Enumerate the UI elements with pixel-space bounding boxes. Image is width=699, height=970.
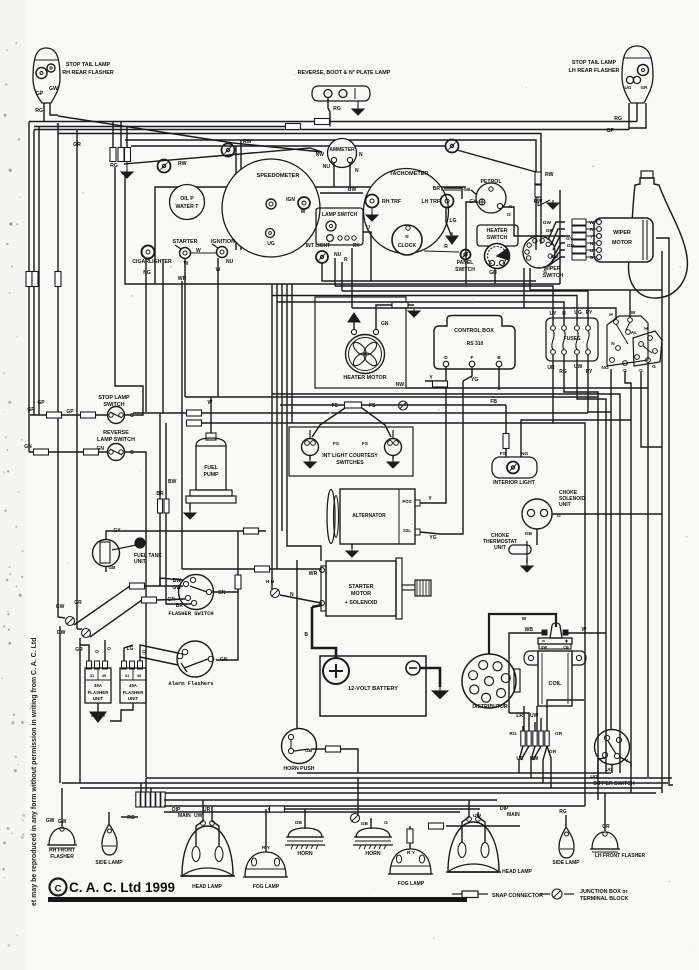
wire Y from control box [425,367,446,381]
svg-text:R Y: R Y [407,850,416,856]
ground heater [353,322,355,329]
wire LH lamp stems [636,103,638,122]
svg-text:G: G [130,450,134,456]
switch alarm flashers [177,641,213,677]
wire RW diagonal to bobbin [457,150,536,172]
wire coil bottom LR UW [523,706,525,732]
svg-text:TACHOMETER: TACHOMETER [389,171,428,177]
svg-text:GP: GP [36,91,44,97]
svg-text:UW: UW [473,813,481,819]
wire alarm flasher left [140,657,178,665]
battery [320,656,426,716]
coil terminals [542,630,547,635]
wires head RH feeds [196,800,203,847]
wire fuse drop 1 [553,355,585,806]
svg-text:SIDE LAMP: SIDE LAMP [552,860,580,866]
svg-text:STOP TAIL LAMP: STOP TAIL LAMP [572,60,617,66]
svg-text:SIDE LAMP: SIDE LAMP [95,860,123,866]
wire ammeter NU drop [333,163,335,187]
svg-text:C. A. C. Ltd 1999: C. A. C. Ltd 1999 [69,880,175,895]
svg-text:GN: GN [489,270,497,276]
fuel pump [196,446,226,490]
wire flasher GN to alarm [212,592,238,660]
wire distributor to coil (HT lead) [489,614,556,654]
wires flasher unit tops [80,645,89,661]
cigar lighter [142,246,155,259]
svg-text:LH FRONT FLASHER: LH FRONT FLASHER [595,853,646,859]
lamp side LH [559,827,574,858]
ground plate lamp [357,101,359,106]
svg-text:UG: UG [267,241,275,247]
wires FS V-drops [312,408,345,437]
wire WR to starter [182,568,321,570]
svg-text:UR: UR [547,365,555,371]
wire fuse drop 4 [588,355,611,412]
gauge speedometer [222,159,320,257]
switch courtesy 1 [302,439,319,456]
svg-text:RY: RY [586,369,593,375]
wire GY branch down x238 [237,531,239,592]
svg-text:AL: AL [631,330,637,336]
wire petrol GY left [466,202,478,284]
svg-text:U: U [590,248,594,254]
wire fog LH feed [407,829,413,843]
svg-text:GR: GR [73,142,81,148]
svg-text:BW: BW [348,187,357,193]
svg-text:UW: UW [574,364,583,370]
svg-text:N: N [590,241,594,247]
svg-text:AMMETER: AMMETER [329,147,355,153]
wire fuse drop 2 [564,355,598,800]
svg-text:GN: GN [381,321,389,327]
wire coil WB [509,633,542,713]
svg-text:HEATER: HEATER [487,228,508,234]
svg-text:RW: RW [545,172,554,178]
wire ignition W drops [184,259,186,397]
snap connector heater [392,302,408,308]
svg-text:49: 49 [102,673,107,678]
svg-text:F: F [471,355,474,361]
svg-text:FLASHER: FLASHER [50,854,74,860]
wire long run y394 [272,394,620,773]
svg-text:YG: YG [471,377,478,383]
svg-text:W: W [631,310,636,316]
wire petrol GB [441,189,461,191]
svg-text:CLOCK: CLOCK [398,243,417,249]
svg-text:D: D [444,355,448,361]
wire stop lamp feed line [30,414,108,416]
wire battery negative to ground [420,668,440,687]
courtesy switch box [289,427,413,476]
ground below RG connectors [126,162,128,169]
svg-text:UNIT: UNIT [559,502,571,508]
svg-text:POS: POS [402,499,411,504]
wire horn push to junction [311,748,325,750]
svg-text:HORN PUSH: HORN PUSH [283,766,314,772]
wire NG interior light [521,420,631,457]
wire lamp switch U [363,232,371,281]
svg-text:GP: GP [66,409,74,415]
svg-text:W: W [589,220,594,226]
junction N [271,589,280,598]
wire side lamp RH feed [108,812,110,824]
svg-text:GN: GN [220,657,228,663]
svg-text:JUNCTION BOX or: JUNCTION BOX or [580,889,629,895]
svg-text:GY: GY [566,236,574,242]
wire FS drop to interior light [505,405,507,457]
svg-text:Alarm Flashers: Alarm Flashers [168,681,213,687]
flasher unit 2 [120,668,146,703]
wire horn2 drop [370,818,372,829]
svg-text:BR: BR [156,491,164,497]
svg-text:RG: RG [333,106,341,112]
svg-text:GB: GB [361,821,369,827]
svg-text:NW: NW [316,152,325,158]
svg-text:H: H [644,326,648,332]
svg-text:GR: GR [641,85,649,90]
wires dipper [598,758,605,778]
flasher unit 1 [85,668,111,703]
snap connector FS mid [345,402,362,408]
svg-text:49: 49 [137,673,142,678]
svg-text:RY: RY [586,310,593,316]
wire Y to alternator [438,387,446,503]
wire horn circuit [357,778,359,814]
svg-text:DIPPER SWITCH: DIPPER SWITCH [593,781,634,787]
lamp side RH [102,824,117,855]
svg-text:W: W [301,209,306,215]
wire side LH feed [565,815,567,827]
svg-text:GB: GB [525,531,533,537]
svg-text:GB: GB [463,187,471,193]
svg-text:NU: NU [226,259,234,265]
wires relay top feeds [352,307,524,309]
svg-text:et may be reproduced in any fo: et may be reproduced in any form without… [31,638,38,907]
svg-text:BW: BW [168,479,177,485]
lamp fog LH [390,849,431,874]
svg-text:REVERSE: REVERSE [103,430,129,436]
svg-text:IGN: IGN [286,197,295,203]
wire NG cigar drop [145,259,147,412]
junction on NW [399,401,408,410]
svg-text:FB: FB [490,399,497,405]
starter shaft and gear [402,584,415,586]
svg-text:SWITCH: SWITCH [455,267,475,273]
dash outer frame [125,175,560,284]
svg-text:STOP LAMP: STOP LAMP [98,395,130,401]
dash inner frame [155,187,466,284]
svg-text:W: W [522,616,527,622]
lamp RH stop/tail [33,48,60,103]
svg-text:HEATER MOTOR: HEATER MOTOR [343,375,386,381]
svg-text:MOTOR: MOTOR [612,240,632,246]
svg-text:N: N [355,168,359,174]
snap connectors on left verticals [26,272,32,287]
svg-text:GB: GB [109,565,117,570]
wire left vertical x39 [38,127,40,416]
wiper switch [523,236,555,268]
svg-text:C: C [55,884,62,895]
ground alternator [351,544,353,548]
svg-text:STOP TAIL LAMP: STOP TAIL LAMP [66,62,111,68]
wire drops from RW lines [235,146,237,250]
heater box frame [315,297,406,388]
screw terminal RW 2 [222,144,235,157]
wire BW riser [160,578,183,586]
alternator terminals [415,500,420,506]
lamp head RH [182,826,233,876]
svg-text:TERMINAL BLOCK: TERMINAL BLOCK [580,896,629,902]
ground flasher unit [97,703,99,712]
svg-text:G: G [130,413,134,419]
horn 1 [288,828,322,837]
svg-text:NG: NG [521,451,528,457]
washer bottle [629,178,688,298]
snap connector Y [433,381,448,387]
legend snap connector [452,893,462,895]
wires center bundle from dash [271,284,273,589]
svg-text:DISTRIBUTOR: DISTRIBUTOR [472,704,508,710]
svg-text:GW: GW [56,604,65,610]
wire RG top bus [29,121,637,123]
switch flasher [179,575,214,610]
svg-text:FUEL: FUEL [204,465,218,471]
alternator [340,489,415,544]
dipper switch [595,730,630,765]
svg-text:SW: SW [541,646,548,650]
heater motor terminals [351,329,356,334]
wire top line y133 [58,134,541,245]
snap connectors BR pair [159,413,161,499]
gauge ammeter [328,139,357,168]
svg-text:GN: GN [567,243,575,249]
svg-text:FS: FS [362,441,369,447]
svg-text:B: B [304,632,308,638]
wire BR to switch [166,600,191,604]
wire plate lamp RG [328,98,330,127]
svg-text:UR: UR [203,807,211,813]
gauge clock [392,225,422,255]
svg-text:RY: RY [353,243,360,249]
svg-text:LG: LG [450,218,457,224]
wire battery cable [312,607,336,658]
wire GW below junction [58,617,65,618]
relay second shape [633,331,662,366]
svg-text:LH TRF: LH TRF [422,199,440,205]
svg-text:CB: CB [563,646,569,650]
svg-text:WATER T: WATER T [176,204,200,210]
svg-text:GR: GR [75,647,83,653]
svg-text:FOG LAMP: FOG LAMP [253,884,280,890]
wire relay drop 4 [647,362,649,388]
lamp RH TRF [366,195,379,208]
snap connectors RG drop left [112,122,114,148]
junction GW [66,617,75,626]
svg-text:G: G [590,255,594,261]
wire fuse drop 3 [577,355,606,773]
svg-text:WB: WB [525,627,534,633]
relay flasher unit right [607,316,648,366]
copyright [50,879,67,896]
connector stack wiper [572,219,586,225]
svg-text:GR: GR [546,228,554,234]
junction horn [351,814,360,823]
bottom bus lines [297,772,611,774]
svg-text:N: N [359,152,363,158]
svg-text:STARTER: STARTER [172,239,197,245]
wire coil W [567,632,606,634]
svg-text:RG: RG [559,369,567,375]
svg-text:RG: RG [127,815,135,821]
svg-text:RH TRF: RH TRF [382,199,401,205]
battery positive terminal [323,658,349,684]
wire GW long left vertical [57,123,59,617]
wire BR tach [444,188,462,199]
svg-text:FUSES: FUSES [564,336,581,342]
svg-text:REVERSE, BOOT & N° PLATE LAMP: REVERSE, BOOT & N° PLATE LAMP [298,70,391,76]
wire BW between gauges [320,192,363,194]
svg-text:O: O [95,649,99,655]
svg-text:STARTER: STARTER [348,584,373,590]
wire FS run [280,404,506,406]
svg-text:GP: GP [27,407,35,413]
svg-text:R Y: R Y [262,845,271,851]
wire GR left vertical [76,130,78,630]
switch courtesy 2 [385,439,402,456]
svg-text:MAIN: MAIN [178,813,191,819]
svg-text:49A: 49A [94,683,102,688]
starter motor [326,561,396,616]
wire diagonal top-left to dash [58,116,322,152]
svg-text:RH REAR FLASHER: RH REAR FLASHER [62,70,114,76]
wire YG run [463,367,472,381]
svg-text:MAIN: MAIN [507,812,520,818]
svg-text:SWITCH: SWITCH [487,235,508,241]
svg-text:B: B [497,355,501,361]
wire diagonal to ammeter [124,148,322,164]
fuel tank unit [93,540,120,567]
svg-text:UG: UG [574,310,582,316]
relay terminals [614,320,619,325]
svg-text:UG: UG [590,774,597,780]
svg-text:S2L: S2L [403,528,411,533]
ground RW [537,197,539,206]
snap connectors RW vertical pair [535,172,541,184]
svg-text:WIPER: WIPER [613,230,631,236]
svg-text:W: W [582,627,587,633]
wire petrol G right [502,207,570,236]
lamp LH front flasher [592,832,618,849]
screw terminal RW 1 [158,160,171,173]
wire LH flasher feed [604,793,606,831]
wiper motor [594,218,653,262]
svg-text:CIGARLIGHTER: CIGARLIGHTER [132,259,172,265]
wire RH lamp stems [43,103,45,122]
wire W fuel pump line [185,396,598,398]
wire GY from tank [106,531,266,540]
svg-text:N: N [611,341,615,347]
svg-text:GW: GW [46,818,55,824]
wire dash top line [125,140,536,250]
fuse box [546,318,598,361]
wire reverse feed line [29,451,108,453]
svg-text:SPEEDOMETER: SPEEDOMETER [257,173,300,179]
svg-text:INT LIGHT: INT LIGHT [306,243,330,249]
svg-text:49A: 49A [129,683,137,688]
wires below right block (fan) [519,746,523,773]
wire horn push feed [296,560,298,729]
snap connector on bus y126 [286,124,301,130]
svg-text:HEAD LAMP: HEAD LAMP [192,884,222,890]
bottom heavy rule [48,897,467,902]
heater switch knob [485,244,510,269]
fuses [551,326,556,331]
ground near clock [451,232,453,236]
wire fuel pump W riser [210,397,212,433]
svg-text:LAMP SWITCH: LAMP SWITCH [97,437,135,443]
choke solenoid unit [522,499,552,529]
svg-text:GP: GP [607,128,615,134]
coil bracket band [524,651,538,665]
wires int light drops [322,263,536,281]
svg-text:FS: FS [369,403,376,409]
svg-text:GB: GB [295,820,303,826]
svg-text:UW: UW [194,813,203,819]
svg-text:UNIT: UNIT [494,545,506,551]
svg-text:O: O [107,646,111,652]
svg-text:SNAP CONNECTOR: SNAP CONNECTOR [492,893,543,899]
coil [550,623,562,638]
svg-text:PANEL: PANEL [457,260,474,266]
svg-text:UNIT: UNIT [93,696,104,701]
wire choke solenoid G [552,513,662,515]
svg-text:HORN: HORN [365,851,381,857]
gauge oil/water [170,185,205,220]
svg-text:GW: GW [49,86,58,92]
svg-text:31: 31 [125,673,130,678]
horn push [282,729,317,764]
lamp LH TRF [441,195,454,208]
svg-text:UW: UW [530,713,539,719]
svg-text:RW: RW [178,161,187,167]
wire flasher unit 2 bottom [110,703,133,721]
interior light [492,457,537,478]
svg-text:GP: GP [37,400,45,406]
svg-text:FS: FS [332,403,339,409]
svg-text:O: O [142,649,146,655]
distributor [462,654,516,708]
wires into right block top [522,726,524,731]
svg-text:WR: WR [309,571,318,577]
svg-text:HORN: HORN [297,851,313,857]
svg-text:RG: RG [614,116,622,122]
wire RW line [131,145,446,147]
svg-text:H: H [609,312,613,318]
svg-text:RW: RW [243,139,252,145]
svg-text:GW: GW [57,630,66,636]
wire N to starter solenoid [280,595,321,603]
snap connector flasher feed 1 [130,583,145,589]
lamp head LH [448,822,499,872]
wire GP bus [34,129,629,131]
svg-text:PUMP: PUMP [204,472,220,478]
svg-text:HEAD LAMP: HEAD LAMP [502,869,532,875]
wire RH flasher feed [61,788,63,826]
paper speckle marks [15,42,17,44]
snap connector on RG bus [315,119,330,125]
svg-text:OIL P: OIL P [180,196,194,202]
svg-text:COIL: COIL [549,681,563,687]
